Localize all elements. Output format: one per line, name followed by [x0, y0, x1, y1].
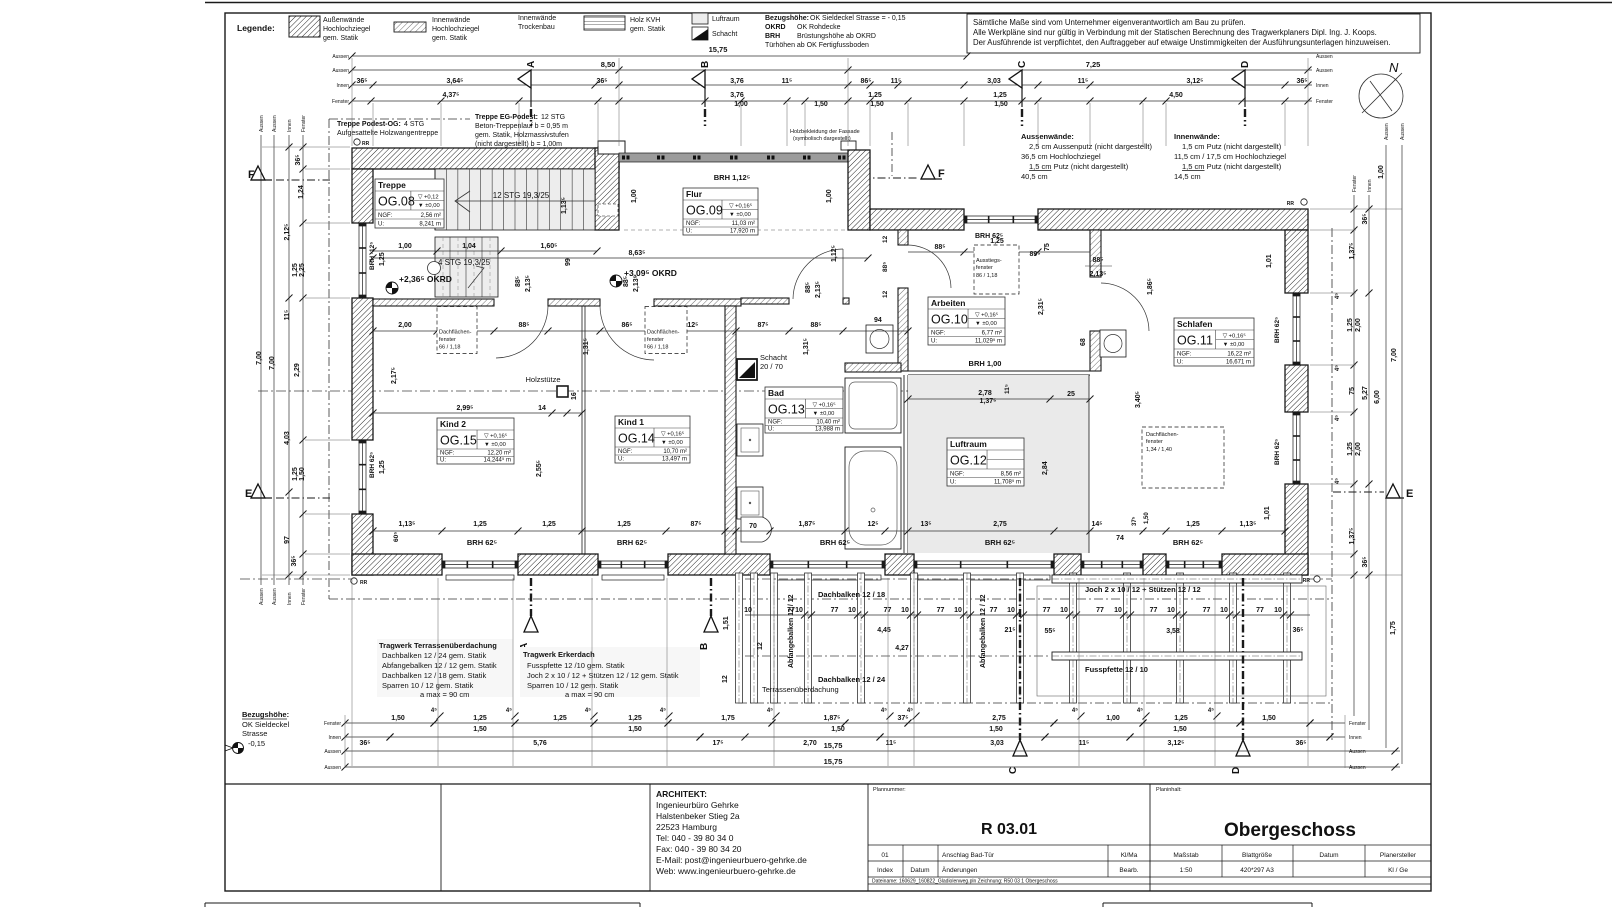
svg-text:Index: Index [877, 867, 894, 874]
outer wall top band left segment [870, 209, 964, 230]
Tragwerk Terrassenueberdachung block [377, 639, 513, 697]
svg-text:BRH 62⁵: BRH 62⁵ [467, 538, 498, 547]
svg-text:12: 12 [757, 642, 764, 650]
inner wall hall middle [548, 299, 600, 306]
svg-text:99: 99 [565, 258, 572, 266]
svg-text:1,13⁵: 1,13⁵ [399, 521, 416, 528]
inner wall hall/Bad left [741, 298, 789, 304]
svg-text:3,03: 3,03 [990, 740, 1004, 747]
svg-text:U:: U: [378, 222, 384, 228]
svg-text:36⁵: 36⁵ [295, 154, 302, 165]
svg-text:Flur: Flur [686, 189, 703, 199]
extension lines left [305, 146, 350, 148]
svg-text:BRH 1,00: BRH 1,00 [969, 359, 1002, 368]
svg-text:Hochlochziegel: Hochlochziegel [323, 26, 371, 33]
svg-text:36⁵: 36⁵ [1296, 78, 1307, 85]
roof beam Dachbalken [1070, 573, 1077, 703]
svg-text:1,25: 1,25 [379, 460, 386, 474]
svg-text:Bezugshöhe:: Bezugshöhe: [765, 15, 809, 22]
svg-text:OG.12: OG.12 [950, 454, 987, 468]
svg-text:10: 10 [901, 607, 909, 614]
svg-text:1,37⁵: 1,37⁵ [1349, 528, 1356, 545]
outer wall left middle [352, 298, 373, 440]
window bottom (Schlafen) [1166, 561, 1222, 568]
svg-text:14: 14 [538, 405, 546, 412]
svg-text:BRH 62⁵: BRH 62⁵ [369, 452, 376, 478]
counter with sink Bad [845, 378, 901, 433]
roof beam Dachbalken [1177, 573, 1184, 703]
svg-text:Planinhalt:: Planinhalt: [1156, 787, 1182, 793]
svg-text:Kind 1: Kind 1 [618, 417, 644, 427]
svg-text:1,25: 1,25 [993, 92, 1007, 99]
svg-text:1,5 cm Putz (nicht dargestellt: 1,5 cm Putz (nicht dargestellt) [1029, 162, 1129, 171]
svg-text:OG.08: OG.08 [378, 195, 415, 209]
svg-text:Aussen: Aussen [332, 54, 349, 60]
svg-text:88⁵: 88⁵ [810, 322, 821, 329]
svg-text:Terrassenüberdachung: Terrassenüberdachung [762, 685, 839, 694]
svg-text:5,27: 5,27 [1362, 386, 1369, 400]
svg-text:Datum: Datum [910, 867, 929, 874]
air space Luftraum area [908, 375, 1089, 553]
svg-text:21⁵: 21⁵ [1004, 627, 1015, 634]
svg-text:Bearb.: Bearb. [1119, 867, 1138, 874]
door leaf Bad [842, 249, 844, 299]
svg-text:-0,15: -0,15 [248, 739, 265, 748]
svg-text:Aussen: Aussen [332, 68, 349, 74]
svg-text:1,37⁵: 1,37⁵ [1349, 243, 1356, 260]
room Bad OG.13 [765, 387, 843, 433]
roof beam Dachbalken [1017, 573, 1024, 703]
svg-text:1,50: 1,50 [299, 467, 306, 481]
svg-text:Joch 2 x 10 / 12 + Stützen 12: Joch 2 x 10 / 12 + Stützen 12 / 12 [1085, 585, 1201, 594]
svg-text:6,00: 6,00 [1374, 390, 1381, 404]
svg-text:BRH 62⁵: BRH 62⁵ [975, 233, 1003, 240]
svg-text:Schlafen: Schlafen [1177, 319, 1212, 329]
outer wall top band right segment [1038, 209, 1308, 230]
svg-text:Sparren 10 / 12 gem. Statik: Sparren 10 / 12 gem. Statik [527, 681, 619, 690]
svg-text:Maßstab: Maßstab [1173, 852, 1199, 859]
lintel right of facade strip [841, 141, 856, 150]
svg-text:fenster: fenster [1146, 439, 1163, 445]
svg-text:Kind 2: Kind 2 [440, 419, 466, 429]
Kind2 dims [373, 412, 582, 414]
svg-text:Treppe EG-Podest:: Treppe EG-Podest: [475, 114, 538, 121]
window sill [774, 575, 881, 580]
svg-text:36⁵: 36⁵ [291, 555, 298, 566]
svg-text:1,12⁵: 1,12⁵ [831, 245, 838, 262]
legend swatch air space [692, 13, 708, 24]
stair walk line [455, 200, 595, 202]
svg-text:86⁵: 86⁵ [621, 322, 632, 329]
svg-text:Anschlag Bad-Tür: Anschlag Bad-Tür [942, 852, 995, 859]
svg-text:2,75: 2,75 [992, 715, 1006, 722]
svg-text:1,25: 1,25 [628, 715, 642, 722]
svg-text:14,5 cm: 14,5 cm [1174, 172, 1201, 181]
washbasin 2 [737, 487, 763, 519]
svg-text:1,13⁵: 1,13⁵ [1240, 521, 1257, 528]
eaves dash right [1308, 578, 1332, 580]
svg-text:2,70: 2,70 [803, 740, 817, 747]
bottom dimension rows [345, 722, 1345, 724]
svg-text:▽ +0,16⁵: ▽ +0,16⁵ [661, 431, 685, 438]
svg-text:2,99⁵: 2,99⁵ [457, 405, 474, 412]
Tragwerk Erkerdach block [520, 647, 700, 697]
svg-text:37⁵: 37⁵ [1132, 516, 1138, 526]
svg-text:2,78: 2,78 [978, 390, 992, 397]
svg-text:▽ +0,16⁵: ▽ +0,16⁵ [1223, 333, 1247, 340]
svg-text:NGF:: NGF: [686, 221, 701, 227]
svg-text:Innen: Innen [336, 83, 349, 89]
svg-text:10: 10 [954, 607, 962, 614]
roof exit window Arbeiten [974, 245, 1019, 294]
outer wall bottom seg 2 [518, 554, 598, 575]
svg-text:Aussen: Aussen [1349, 765, 1366, 771]
svg-text:3,03: 3,03 [987, 78, 1001, 85]
svg-text:4,50: 4,50 [1169, 92, 1183, 99]
svg-text:ARCHITEKT:: ARCHITEKT: [656, 789, 707, 799]
svg-text:Aussenwände:: Aussenwände: [1021, 132, 1074, 141]
window bottom (Kind 2) [442, 561, 518, 568]
extension lines top [351, 103, 353, 146]
svg-text:Aussen: Aussen [259, 115, 265, 132]
plan dashed boundary left [328, 119, 330, 599]
svg-text:60⁵: 60⁵ [393, 532, 400, 542]
svg-text:36⁵: 36⁵ [1362, 213, 1369, 224]
svg-text:75: 75 [1349, 387, 1356, 395]
left dimension lines [260, 135, 262, 585]
svg-text:2,5 cm Aussenputz (nicht darge: 2,5 cm Aussenputz (nicht dargestellt) [1029, 142, 1152, 151]
svg-text:R 03.01: R 03.01 [981, 821, 1037, 838]
svg-text:OG.11: OG.11 [1177, 334, 1213, 348]
svg-text:fenster: fenster [439, 337, 456, 343]
svg-text:a max = 90 cm: a max = 90 cm [420, 690, 469, 699]
svg-text:Innen: Innen [287, 119, 293, 132]
svg-text:10: 10 [848, 607, 856, 614]
svg-text:1,01: 1,01 [1266, 254, 1273, 268]
room Arbeiten OG.10 [928, 297, 1005, 345]
svg-text:Innenwände:: Innenwände: [1174, 132, 1220, 141]
svg-text:4,27: 4,27 [895, 645, 909, 652]
svg-text:Abfangebalken 12 / 12: Abfangebalken 12 / 12 [788, 594, 795, 668]
svg-text:Fusspfette 12 / 10: Fusspfette 12 / 10 [1085, 665, 1148, 674]
svg-text:Blattgröße: Blattgröße [1242, 852, 1272, 859]
svg-text:NGF:: NGF: [931, 331, 946, 337]
svg-text:77: 77 [1096, 607, 1104, 614]
svg-text:1,25: 1,25 [553, 715, 567, 722]
stair dim line [373, 250, 597, 252]
svg-text:10: 10 [1060, 607, 1068, 614]
svg-text:OKRD: OKRD [765, 24, 786, 31]
door arc Kind 2 [496, 306, 548, 358]
svg-text:Joch 2 x 10 / 12 + Stützen 12: Joch 2 x 10 / 12 + Stützen 12 / 12 gem. … [527, 671, 679, 680]
svg-text:1,25: 1,25 [617, 521, 631, 528]
svg-text:1,87⁵: 1,87⁵ [824, 715, 841, 722]
Joch double beam [1052, 575, 1302, 583]
svg-text:Dachflächen-: Dachflächen- [647, 330, 680, 336]
svg-text:1,25: 1,25 [473, 715, 487, 722]
svg-text:Treppe: Treppe [378, 180, 406, 190]
svg-text:C: C [1008, 767, 1019, 774]
bathtub [845, 447, 901, 549]
svg-text:13⁵: 13⁵ [920, 521, 931, 528]
svg-text:86 / 1,18: 86 / 1,18 [976, 273, 997, 279]
svg-text:Hochlochziegel: Hochlochziegel [432, 26, 480, 33]
svg-text:gem. Statik, Holzmassivstufen: gem. Statik, Holzmassivstufen [475, 132, 569, 139]
svg-text:Luftraum: Luftraum [950, 439, 987, 449]
svg-text:7,25: 7,25 [1086, 60, 1101, 69]
svg-text:15,75: 15,75 [824, 741, 843, 750]
svg-text:88⁵: 88⁵ [934, 244, 945, 251]
window bottom small [1081, 561, 1143, 568]
svg-text:Dachflächen-: Dachflächen- [439, 330, 472, 336]
svg-text:1,00: 1,00 [826, 189, 833, 203]
svg-text:70: 70 [749, 523, 757, 530]
svg-text:NGF:: NGF: [1177, 352, 1192, 358]
svg-text:Arbeiten: Arbeiten [931, 298, 965, 308]
outer wall bottom right corner [1222, 554, 1308, 575]
svg-text:BRH 1,12⁵: BRH 1,12⁵ [714, 173, 751, 182]
svg-text:Dachbalken 12 / 18 gem. Stati: Dachbalken 12 / 18 gem. Statik [382, 671, 486, 680]
svg-text:Innen: Innen [1367, 179, 1373, 192]
svg-text:1,25: 1,25 [868, 92, 882, 99]
window bottom (Kind 1) [598, 561, 668, 568]
svg-text:1,25: 1,25 [1186, 521, 1200, 528]
extra ticks bottom rows [431, 720, 438, 727]
svg-text:▽ +0,16⁵: ▽ +0,16⁵ [729, 203, 753, 210]
svg-text:4⁵: 4⁵ [1335, 478, 1341, 484]
svg-text:U:: U: [1177, 360, 1183, 366]
drywall partition Kind2/Kind1 [581, 306, 583, 554]
WC [741, 517, 771, 542]
svg-text:NGF:: NGF: [768, 420, 783, 426]
svg-text:Plannummer:: Plannummer: [873, 787, 906, 793]
svg-text:2,17⁵: 2,17⁵ [391, 367, 398, 384]
svg-text:Sämtliche Maße sind vom Untern: Sämtliche Maße sind vom Unternehmer eige… [973, 18, 1246, 27]
svg-text:10: 10 [795, 607, 803, 614]
svg-text:Aussen: Aussen [1384, 123, 1390, 140]
svg-text:Sparren 10 / 12 gem. Stati: Sparren 10 / 12 gem. Statik [382, 681, 474, 690]
dim line hall 2,00 [373, 330, 736, 332]
svg-text:Abfangebalken 12 / 12 gem. Sta: Abfangebalken 12 / 12 gem. Statik [382, 661, 497, 670]
svg-text:▼ ±0,00: ▼ ±0,00 [1223, 342, 1245, 348]
svg-text:4⁵: 4⁵ [660, 708, 666, 714]
roof beam Dachbalken [1124, 573, 1131, 703]
svg-text:36⁵: 36⁵ [1362, 556, 1369, 567]
svg-text:87⁵: 87⁵ [757, 322, 768, 329]
svg-text:2,13⁵: 2,13⁵ [815, 281, 822, 298]
svg-text:3,40⁵: 3,40⁵ [1135, 391, 1142, 408]
window bottom (Bad) [770, 561, 885, 568]
roof beam Dachbalken [858, 573, 865, 703]
room Kind 2 OG.15 [437, 418, 514, 464]
svg-text:77: 77 [937, 607, 945, 614]
svg-text:86⁵: 86⁵ [860, 78, 871, 85]
svg-text:B: B [700, 61, 711, 68]
svg-text:Legende:: Legende: [237, 23, 275, 33]
svg-text:2,56 m²: 2,56 m² [421, 213, 441, 219]
svg-text:25: 25 [1067, 391, 1075, 398]
svg-text:U:: U: [768, 427, 774, 433]
svg-text:BRH 62⁵: BRH 62⁵ [1274, 317, 1281, 343]
svg-text:36⁵: 36⁵ [1292, 627, 1303, 634]
svg-text:1,25: 1,25 [542, 521, 556, 528]
window right 1 [1293, 293, 1300, 365]
svg-text:3,12⁵: 3,12⁵ [1187, 78, 1204, 85]
svg-text:▼ ±0,00: ▼ ±0,00 [418, 203, 440, 209]
Fusspfette beam [1052, 652, 1302, 660]
roof window Kind2 [437, 307, 477, 354]
svg-text:2,13⁵: 2,13⁵ [633, 275, 640, 292]
window left upper [359, 223, 366, 298]
svg-text:1,50: 1,50 [1144, 512, 1150, 524]
svg-text:20 / 70: 20 / 70 [760, 362, 783, 371]
svg-text:OG.15: OG.15 [440, 434, 477, 448]
svg-text:1,31⁵: 1,31⁵ [803, 338, 810, 355]
svg-text:Ausstiegs-: Ausstiegs- [976, 258, 1002, 264]
inner wall hall/Kind1-Bad [654, 299, 741, 306]
plan dashed boundary bottom [329, 598, 1332, 600]
svg-text:77: 77 [990, 607, 998, 614]
washbasin 1 [737, 424, 763, 456]
svg-text:RR: RR [360, 580, 368, 586]
svg-text:1,50: 1,50 [1262, 715, 1276, 722]
inner wall Arbeiten left lower [898, 288, 908, 371]
svg-text:1,25: 1,25 [292, 467, 299, 481]
svg-text:F: F [938, 168, 945, 180]
svg-text:NGF:: NGF: [440, 451, 455, 457]
svg-text:10: 10 [1167, 607, 1175, 614]
svg-text:Dachbalken 12 / 24: Dachbalken 12 / 24 [818, 675, 886, 684]
railing top of air space BRH 1,00 [908, 370, 1090, 372]
legend swatch outer walls [289, 16, 320, 37]
svg-text:12: 12 [882, 235, 889, 243]
svg-text:Innen: Innen [1349, 735, 1362, 741]
svg-text:12: 12 [722, 675, 729, 683]
terrace dashed boundary [737, 599, 739, 703]
svg-text:OG.10: OG.10 [931, 313, 968, 327]
ridge dash-dot line [258, 390, 908, 392]
svg-text:1,25: 1,25 [1347, 318, 1354, 332]
roof beam Dachbalken [805, 573, 812, 703]
svg-text:OK Sieldeckel: OK Sieldeckel [242, 720, 289, 729]
svg-text:10,70 m²: 10,70 m² [663, 449, 687, 455]
section marker D (bottom) [1242, 578, 1244, 740]
svg-text:4⁵: 4⁵ [1335, 365, 1341, 371]
svg-text:10: 10 [744, 607, 752, 614]
right dimension lines [1353, 195, 1355, 716]
svg-text:12,20 m²: 12,20 m² [487, 451, 511, 457]
svg-text:1,25: 1,25 [473, 521, 487, 528]
svg-text:BRH: BRH [765, 33, 780, 40]
svg-text:4,45: 4,45 [877, 627, 891, 634]
svg-text:1,25: 1,25 [292, 263, 299, 277]
svg-text:12 STG 19,3/25: 12 STG 19,3/25 [493, 191, 550, 200]
svg-text:BRH 62⁵: BRH 62⁵ [1274, 439, 1281, 465]
svg-text:Fenster: Fenster [324, 721, 341, 727]
Luftraum dims [908, 398, 1090, 400]
svg-text:E-Mail: post@ingenieurbuero-ge: E-Mail: post@ingenieurbuero-gehrke.de [656, 855, 807, 865]
OKRD level symbol [386, 282, 398, 294]
niche in stair wall [598, 204, 618, 216]
roof window Schlafen [1142, 427, 1224, 488]
svg-text:66 / 1,18: 66 / 1,18 [647, 345, 668, 351]
svg-text:12⁵: 12⁵ [867, 521, 878, 528]
svg-text:1,50: 1,50 [831, 726, 845, 733]
svg-text:1,75: 1,75 [1390, 621, 1397, 635]
door arc Kind 1 [600, 306, 654, 360]
svg-text:87⁵: 87⁵ [690, 521, 701, 528]
svg-text:8,56 m²: 8,56 m² [1001, 472, 1021, 478]
svg-text:11,03 m²: 11,03 m² [732, 221, 755, 227]
svg-text:Bezugshöhe:: Bezugshöhe: [242, 710, 289, 719]
svg-text:Luftraum: Luftraum [712, 16, 740, 23]
svg-text:Aussen: Aussen [272, 115, 278, 132]
inner wall hall/Kind2 [373, 299, 494, 306]
svg-text:B: B [699, 643, 710, 650]
svg-text:NGF:: NGF: [378, 213, 393, 219]
plan dashed boundary right [1331, 228, 1333, 740]
svg-text:1,75: 1,75 [721, 715, 735, 722]
svg-text:Innenwände: Innenwände [518, 15, 556, 22]
section marker C (bottom) [1019, 578, 1021, 740]
roof beam Dachbalken [964, 573, 971, 703]
svg-text:BRH 62⁵: BRH 62⁵ [1173, 538, 1204, 547]
svg-text:▼ ±0,00: ▼ ±0,00 [813, 411, 835, 417]
outer wall right of stair [595, 148, 619, 230]
svg-text:88⁵: 88⁵ [623, 276, 630, 287]
svg-text:Innen: Innen [328, 735, 341, 741]
room Flur OG.09 [683, 188, 758, 235]
svg-text:4 STG 19,3/25: 4 STG 19,3/25 [438, 258, 491, 267]
svg-text:fenster: fenster [647, 337, 664, 343]
Flur open edge dashed [624, 229, 845, 231]
svg-text:4⁵: 4⁵ [1137, 708, 1143, 714]
svg-text:94: 94 [874, 317, 882, 324]
svg-text:11,029⁵ m: 11,029⁵ m [975, 338, 1002, 345]
top dimension lines [352, 55, 967, 57]
legend swatch shaft [692, 27, 708, 40]
window sill [602, 575, 664, 580]
F section dash vertical [891, 132, 893, 176]
lintel rect over stair wall [598, 141, 625, 154]
outer wall bottom seg 1 [352, 554, 442, 575]
svg-text:1,50: 1,50 [391, 715, 405, 722]
svg-text:5,76: 5,76 [533, 740, 547, 747]
svg-text:Bad: Bad [768, 388, 784, 398]
svg-text:BRH 62⁵: BRH 62⁵ [820, 538, 851, 547]
outer wall left upper [352, 169, 373, 223]
room Treppe OG.08 [375, 179, 444, 228]
svg-text:66 / 1,18: 66 / 1,18 [439, 345, 460, 351]
svg-text:13,497 m: 13,497 m [662, 457, 687, 463]
thin frame around Fusspfette group [1037, 586, 1326, 696]
svg-text:2,12⁵: 2,12⁵ [284, 224, 291, 241]
svg-text:N: N [1389, 60, 1399, 75]
svg-text:4⁵: 4⁵ [1208, 708, 1214, 714]
title block [225, 783, 1431, 785]
svg-text:16,671 m: 16,671 m [1226, 360, 1251, 366]
svg-text:gem. Statik: gem. Statik [323, 35, 359, 42]
svg-text:1,31⁵: 1,31⁵ [583, 338, 590, 355]
svg-text:Tragwerk Erkerdach: Tragwerk Erkerdach [523, 650, 595, 659]
svg-text:Planersteller: Planersteller [1380, 852, 1417, 859]
purlin dash-dot lines [745, 578, 1050, 580]
svg-text:4 STG: 4 STG [404, 121, 424, 128]
svg-text:3,58: 3,58 [1166, 628, 1180, 635]
section marker B (bottom) [710, 578, 712, 616]
svg-text:Aussen: Aussen [324, 765, 341, 771]
svg-text:Dachbalken 12 / 24 gem. Statik: Dachbalken 12 / 24 gem. Statik [382, 651, 486, 660]
